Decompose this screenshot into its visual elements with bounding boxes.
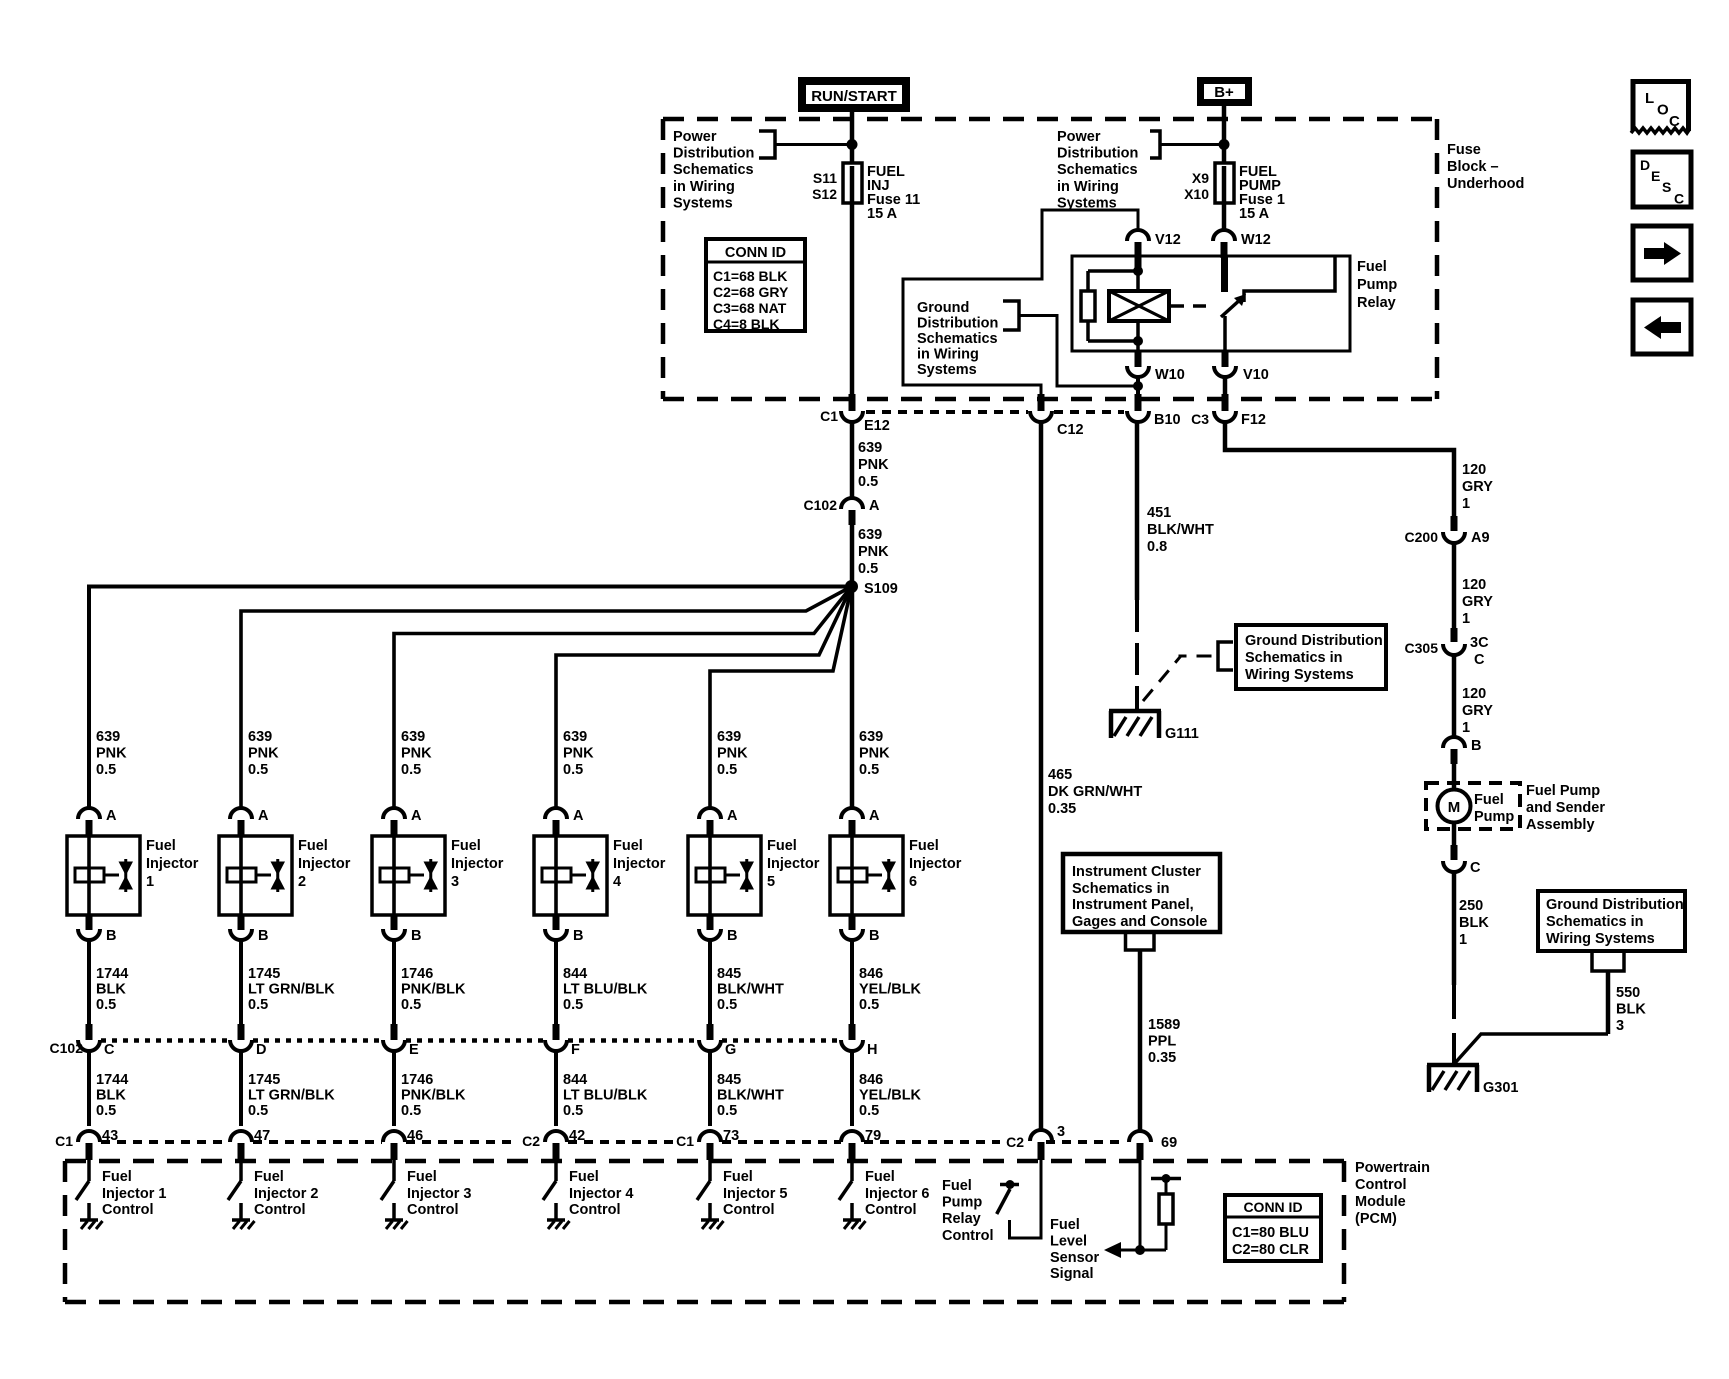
bracket ground distribution — [1003, 301, 1019, 330]
connector terminal W12 — [1213, 230, 1235, 241]
svg-text:V10: V10 — [1243, 367, 1269, 383]
ground G111 — [1109, 709, 1161, 714]
svg-text:C3=68 NAT: C3=68 NAT — [713, 300, 787, 316]
dashed connector line PCM row — [101, 1140, 229, 1144]
svg-text:Relay: Relay — [942, 1211, 981, 1227]
svg-text:PNK: PNK — [96, 746, 127, 762]
svg-text:C: C — [1669, 113, 1680, 130]
CONN ID table (fuse block) — [706, 239, 805, 331]
svg-text:LT BLU/BLK: LT BLU/BLK — [563, 982, 648, 998]
svg-text:0.5: 0.5 — [96, 1103, 116, 1119]
svg-text:G111: G111 — [1165, 726, 1199, 742]
svg-text:0.5: 0.5 — [859, 1103, 879, 1119]
connector C3 pin F12 — [1222, 394, 1229, 411]
svg-text:Fuel: Fuel — [865, 1169, 895, 1185]
PCM driver switch injector 2 — [239, 1160, 243, 1181]
relay output wire to V10 — [1223, 316, 1227, 351]
svg-text:Control: Control — [723, 1202, 775, 1218]
wire bracket to W10 wire — [1019, 316, 1134, 387]
svg-text:Power: Power — [673, 129, 717, 145]
svg-text:1745: 1745 — [248, 966, 280, 982]
svg-text:Sensor: Sensor — [1050, 1250, 1100, 1266]
svg-text:C: C — [1470, 860, 1481, 876]
connector C305 pin 3C — [1451, 628, 1458, 642]
svg-text:Control: Control — [1355, 1177, 1407, 1193]
svg-text:Fuel: Fuel — [254, 1169, 284, 1185]
connector C200 pin A9 — [1451, 516, 1458, 531]
svg-text:C102: C102 — [50, 1040, 84, 1056]
svg-text:250: 250 — [1459, 898, 1483, 914]
wire C102 to S109 — [850, 523, 855, 586]
svg-text:L: L — [1645, 90, 1654, 107]
wire E12 to C102 — [850, 422, 855, 499]
svg-text:CONN ID: CONN ID — [725, 245, 786, 261]
svg-text:1746: 1746 — [401, 1072, 433, 1088]
connector injector 6 pin B — [849, 915, 856, 930]
wire splice fan to injector 5 — [710, 587, 852, 809]
svg-text:Injector: Injector — [146, 856, 199, 872]
bracket ground distribution note — [1218, 642, 1233, 670]
svg-text:639: 639 — [858, 440, 882, 456]
connector fuel pump pin C — [1452, 823, 1457, 847]
svg-text:0.5: 0.5 — [563, 762, 583, 778]
junction coil top — [1133, 266, 1143, 276]
PCM driver switch injector 3 — [392, 1160, 396, 1181]
wire splice to injector 6 — [850, 586, 855, 808]
svg-text:A: A — [727, 808, 738, 824]
svg-text:Injector 6: Injector 6 — [865, 1186, 929, 1202]
connector injector 5 pin A — [699, 808, 721, 819]
svg-text:0.5: 0.5 — [717, 762, 737, 778]
wire fuse 1 down to W12 — [1222, 203, 1227, 230]
junction on RUN/START feed — [847, 139, 858, 150]
connector injector 1 pin B — [86, 915, 93, 930]
svg-text:YEL/BLK: YEL/BLK — [859, 1088, 922, 1104]
svg-text:PNK: PNK — [248, 746, 279, 762]
wire RUN/START down to fuse 11 — [850, 112, 855, 165]
svg-text:GRY: GRY — [1462, 479, 1493, 495]
svg-text:A: A — [869, 498, 880, 514]
svg-text:Injector 4: Injector 4 — [569, 1186, 633, 1202]
svg-text:451: 451 — [1147, 505, 1171, 521]
ground injector 4 driver — [547, 1218, 565, 1222]
wire C102 E down — [392, 1051, 396, 1126]
svg-text:0.35: 0.35 — [1048, 801, 1076, 817]
svg-text:0.5: 0.5 — [248, 762, 268, 778]
svg-text:in Wiring: in Wiring — [1057, 179, 1119, 195]
PCM driver switch injector 1 — [87, 1160, 91, 1181]
svg-text:1745: 1745 — [248, 1072, 280, 1088]
svg-text:Pump: Pump — [942, 1195, 982, 1211]
svg-text:120: 120 — [1462, 462, 1486, 478]
svg-text:0.5: 0.5 — [859, 762, 879, 778]
svg-text:Gages and Console: Gages and Console — [1072, 914, 1207, 930]
svg-text:2: 2 — [298, 874, 306, 890]
relay switch fixed contact — [1244, 257, 1335, 302]
svg-text:Wiring Systems: Wiring Systems — [1546, 931, 1655, 947]
wire B10 down (451 BLK/WHT) — [1135, 422, 1140, 600]
svg-text:C: C — [1674, 191, 1684, 207]
svg-text:CONN ID: CONN ID — [1243, 1199, 1302, 1215]
svg-text:B: B — [727, 928, 737, 944]
fuse 11 (S11/S12) FUEL INJ Fuse 11 15 A — [850, 165, 855, 203]
svg-text:5: 5 — [767, 874, 775, 890]
svg-text:1746: 1746 — [401, 966, 433, 982]
connector C102 pin H — [849, 1024, 856, 1040]
svg-text:E12: E12 — [864, 418, 890, 434]
svg-text:Ground Distribution: Ground Distribution — [1546, 897, 1684, 913]
wire 550 BLK 3 to G301 — [1606, 971, 1611, 1034]
svg-text:PNK: PNK — [401, 746, 432, 762]
PCM fuel pump relay driver switch — [1000, 1183, 1019, 1187]
svg-text:Injector 5: Injector 5 — [723, 1186, 787, 1202]
svg-text:465: 465 — [1048, 767, 1072, 783]
svg-text:846: 846 — [859, 966, 883, 982]
relay coil-switch dashed link — [1171, 304, 1214, 308]
svg-text:C1=80 BLU: C1=80 BLU — [1232, 1225, 1309, 1241]
wire dashed to G301 — [1452, 985, 1456, 1064]
svg-text:C3: C3 — [1191, 411, 1209, 427]
CONN ID table (PCM) — [1225, 1195, 1321, 1261]
svg-text:639: 639 — [859, 729, 883, 745]
svg-text:Ground Distribution: Ground Distribution — [1245, 633, 1383, 649]
connector injector 1 pin A — [78, 808, 100, 819]
connector C102 pin F — [553, 1024, 560, 1040]
svg-text:4: 4 — [613, 874, 621, 890]
fuel pump and sender assembly dashed box — [1426, 783, 1520, 829]
fuel injector 1 — [67, 836, 140, 915]
svg-text:B: B — [411, 928, 421, 944]
wire C200 to C305 — [1452, 543, 1457, 629]
svg-text:0.5: 0.5 — [248, 997, 268, 1013]
svg-text:Systems: Systems — [917, 362, 977, 378]
ground injector 5 driver — [701, 1218, 719, 1222]
connector injector 2 pin B — [238, 915, 245, 930]
svg-text:S12: S12 — [812, 186, 837, 202]
wire C102 H down — [850, 1051, 854, 1126]
svg-text:844: 844 — [563, 1072, 587, 1088]
dashed connector line C12-B10 — [1054, 410, 1124, 414]
svg-text:BLK/WHT: BLK/WHT — [717, 1088, 784, 1104]
connector C102 pin D — [238, 1024, 245, 1040]
svg-text:639: 639 — [248, 729, 272, 745]
wire injector 6 pin B down — [850, 940, 854, 1026]
connector C102 pin G — [707, 1024, 714, 1040]
svg-text:in Wiring: in Wiring — [673, 179, 735, 195]
svg-text:C1: C1 — [676, 1133, 694, 1149]
relay coil — [1109, 291, 1169, 321]
wire C102 F down — [554, 1051, 558, 1126]
svg-text:0.5: 0.5 — [717, 1103, 737, 1119]
svg-text:639: 639 — [717, 729, 741, 745]
powertrain control module dashed box — [65, 1159, 1344, 1164]
svg-text:844: 844 — [563, 966, 587, 982]
svg-text:Underhood: Underhood — [1447, 176, 1524, 192]
dashed branch to ground distribution note — [1143, 656, 1216, 701]
wire splice fan to injector 2 — [241, 587, 852, 809]
svg-text:Fuel: Fuel — [569, 1169, 599, 1185]
svg-text:PPL: PPL — [1148, 1034, 1176, 1050]
connector PCM pin 46 — [383, 1131, 405, 1142]
svg-text:B: B — [869, 928, 879, 944]
button DESC — [1633, 152, 1691, 207]
svg-text:B+: B+ — [1214, 84, 1234, 101]
svg-text:845: 845 — [717, 966, 741, 982]
wire instrument cluster to PCM pin 69 (1589 PPL) — [1138, 950, 1143, 1130]
svg-text:69: 69 — [1161, 1135, 1177, 1151]
svg-text:Wiring Systems: Wiring Systems — [1245, 667, 1354, 683]
junction coil bottom — [1133, 336, 1143, 346]
svg-text:PNK: PNK — [858, 457, 889, 473]
svg-text:0.5: 0.5 — [248, 1103, 268, 1119]
connector injector 4 pin A — [545, 808, 567, 819]
svg-text:C102: C102 — [804, 497, 838, 513]
wire C102 G down — [708, 1051, 712, 1126]
svg-text:0.5: 0.5 — [96, 997, 116, 1013]
wire pin 3 to relay control switch — [1010, 1160, 1042, 1238]
power rail label RUN/START — [798, 77, 910, 112]
relay switch common bar from W12 — [1221, 256, 1228, 292]
wire injector 4 pin B down — [554, 940, 558, 1026]
button LOC — [1633, 82, 1689, 132]
svg-text:C305: C305 — [1405, 640, 1439, 656]
svg-text:C12: C12 — [1057, 422, 1084, 438]
svg-text:Block –: Block – — [1447, 159, 1499, 175]
svg-text:C1=68 BLK: C1=68 BLK — [713, 268, 787, 284]
svg-text:639: 639 — [563, 729, 587, 745]
svg-text:Fuel: Fuel — [407, 1169, 437, 1185]
note box Ground Distribution Schematics in Wiring Systems (middle) — [1236, 625, 1386, 689]
svg-text:Injector: Injector — [909, 856, 962, 872]
bracket to RUN/START wire — [759, 131, 775, 158]
svg-text:Fuel: Fuel — [1050, 1217, 1080, 1233]
svg-text:LT BLU/BLK: LT BLU/BLK — [563, 1088, 648, 1104]
svg-text:Fuel: Fuel — [942, 1178, 972, 1194]
svg-text:Powertrain: Powertrain — [1355, 1160, 1430, 1176]
fuel pump relay box — [1072, 256, 1350, 351]
svg-text:0.5: 0.5 — [858, 474, 878, 490]
svg-text:Fuel: Fuel — [613, 838, 643, 854]
bracket instrument cluster — [1126, 931, 1155, 950]
svg-text:Systems: Systems — [673, 195, 733, 211]
svg-text:C2: C2 — [522, 1133, 540, 1149]
svg-text:S11: S11 — [813, 170, 837, 186]
svg-text:C: C — [1474, 652, 1485, 668]
wire injector 5 pin B down — [708, 940, 712, 1026]
svg-text:S: S — [1662, 179, 1671, 195]
svg-text:Injector: Injector — [451, 856, 504, 872]
svg-text:3: 3 — [1616, 1018, 1624, 1034]
svg-text:846: 846 — [859, 1072, 883, 1088]
wire loop V12 to C12 (coil feed) — [903, 210, 1138, 397]
svg-text:B: B — [106, 928, 116, 944]
svg-text:M: M — [1448, 799, 1461, 816]
svg-text:A: A — [106, 808, 117, 824]
svg-text:F: F — [571, 1042, 580, 1058]
svg-text:H: H — [867, 1042, 877, 1058]
svg-text:Schematics in: Schematics in — [1245, 650, 1343, 666]
ground injector 1 driver — [80, 1218, 98, 1222]
svg-text:Fuel: Fuel — [298, 838, 328, 854]
svg-text:Injector: Injector — [298, 856, 351, 872]
svg-text:Instrument Cluster: Instrument Cluster — [1072, 864, 1201, 880]
svg-text:V12: V12 — [1155, 232, 1181, 248]
svg-text:DK GRN/WHT: DK GRN/WHT — [1048, 784, 1142, 800]
svg-text:Injector 2: Injector 2 — [254, 1186, 318, 1202]
svg-text:Fuel: Fuel — [451, 838, 481, 854]
svg-text:Distribution: Distribution — [917, 316, 998, 332]
ground injector 2 driver — [232, 1218, 250, 1222]
wire fuse 11 to connector E12 — [850, 203, 855, 395]
svg-text:Schematics in: Schematics in — [1546, 914, 1644, 930]
svg-text:0.5: 0.5 — [859, 997, 879, 1013]
svg-text:LT GRN/BLK: LT GRN/BLK — [248, 982, 335, 998]
connector injector 6 pin A — [841, 808, 863, 819]
svg-text:Schematics in: Schematics in — [1072, 881, 1170, 897]
svg-text:Fuse: Fuse — [1447, 142, 1481, 158]
svg-text:BLK: BLK — [1616, 1002, 1646, 1018]
fuse 1 (X9/X10) FUEL PUMP Fuse 1 15 A — [1215, 163, 1234, 203]
fuel pump motor M — [1438, 790, 1471, 823]
svg-text:PNK: PNK — [858, 544, 889, 560]
junction on B+ feed — [1219, 139, 1230, 150]
dotted connector line C102 — [101, 1038, 229, 1043]
wire bracket to feed — [775, 143, 849, 146]
svg-text:Relay: Relay — [1357, 295, 1396, 311]
svg-text:YEL/BLK: YEL/BLK — [859, 982, 922, 998]
svg-text:0.5: 0.5 — [717, 997, 737, 1013]
svg-text:B: B — [1471, 738, 1481, 754]
svg-text:B: B — [258, 928, 268, 944]
wire bracket to B+ feed — [1160, 143, 1221, 146]
bracket ground distribution right — [1592, 950, 1624, 971]
svg-text:W10: W10 — [1155, 367, 1185, 383]
svg-text:Distribution: Distribution — [673, 146, 754, 162]
fuel level sensor signal arrow — [1118, 1249, 1140, 1252]
svg-text:D: D — [1640, 157, 1650, 173]
svg-text:Signal: Signal — [1050, 1266, 1094, 1282]
svg-text:O: O — [1657, 102, 1669, 119]
svg-text:LT GRN/BLK: LT GRN/BLK — [248, 1088, 335, 1104]
svg-text:0.5: 0.5 — [401, 1103, 421, 1119]
svg-text:RUN/START: RUN/START — [811, 88, 897, 105]
svg-text:Assembly: Assembly — [1526, 817, 1595, 833]
svg-text:845: 845 — [717, 1072, 741, 1088]
wire injector 3 pin B down — [392, 940, 396, 1026]
svg-text:0.35: 0.35 — [1148, 1050, 1176, 1066]
PCM driver switch injector 4 — [554, 1160, 558, 1181]
svg-text:in Wiring: in Wiring — [917, 347, 979, 363]
connector injector 4 pin B — [553, 915, 560, 930]
svg-text:C2=80 CLR: C2=80 CLR — [1232, 1242, 1309, 1258]
svg-text:W12: W12 — [1241, 232, 1271, 248]
svg-text:E: E — [409, 1042, 419, 1058]
svg-text:Control: Control — [942, 1228, 994, 1244]
svg-text:1: 1 — [1462, 496, 1470, 512]
svg-text:1: 1 — [1459, 932, 1467, 948]
wire pin C down (250 BLK) — [1452, 872, 1457, 985]
connector injector 2 pin A — [230, 808, 252, 819]
svg-text:C2=68 GRY: C2=68 GRY — [713, 284, 789, 300]
svg-text:Instrument Panel,: Instrument Panel, — [1072, 897, 1194, 913]
svg-text:G301: G301 — [1483, 1080, 1518, 1096]
svg-text:6: 6 — [909, 874, 917, 890]
svg-text:A: A — [869, 808, 880, 824]
svg-text:3C: 3C — [1470, 635, 1489, 651]
svg-text:PNK/BLK: PNK/BLK — [401, 1088, 466, 1104]
connector C2 pin 69 — [1129, 1131, 1151, 1142]
svg-text:Control: Control — [254, 1202, 306, 1218]
wire splice fan to injector 1 — [89, 587, 852, 809]
svg-text:Distribution: Distribution — [1057, 146, 1138, 162]
svg-text:BLK: BLK — [96, 1088, 126, 1104]
connector C102 pin A — [841, 498, 863, 509]
svg-text:C200: C200 — [1405, 529, 1439, 545]
svg-text:Control: Control — [569, 1202, 621, 1218]
connector fuel pump pin B — [1443, 737, 1465, 748]
note box Instrument Cluster Schematics — [1063, 854, 1220, 932]
svg-text:Injector: Injector — [767, 856, 820, 872]
bracket to B+ feed — [1150, 131, 1160, 158]
svg-text:550: 550 — [1616, 985, 1640, 1001]
svg-text:BLK/WHT: BLK/WHT — [1147, 522, 1214, 538]
fuel injector 2 — [219, 836, 292, 915]
ground injector 6 driver — [843, 1218, 861, 1222]
svg-text:15 A: 15 A — [867, 206, 898, 222]
PCM driver switch injector 5 — [708, 1160, 712, 1181]
svg-text:0.8: 0.8 — [1147, 539, 1167, 555]
wire C102 C down — [87, 1051, 91, 1126]
svg-text:A: A — [411, 808, 422, 824]
connector terminal W10 — [1135, 351, 1142, 367]
svg-text:Fuel: Fuel — [1357, 259, 1387, 275]
svg-text:Fuel: Fuel — [102, 1169, 132, 1185]
svg-text:Injector 3: Injector 3 — [407, 1186, 471, 1202]
svg-text:Schematics: Schematics — [1057, 162, 1138, 178]
note box Ground Distribution Schematics (right) — [1538, 891, 1685, 951]
svg-text:C4=8 BLK: C4=8 BLK — [713, 316, 780, 332]
relay coil feed bar from V12 — [1135, 256, 1142, 273]
wire pin B into pump assembly — [1452, 764, 1457, 790]
fuel injector 4 — [534, 836, 607, 915]
svg-text:X9: X9 — [1192, 170, 1209, 186]
svg-text:0.5: 0.5 — [96, 762, 116, 778]
svg-text:BLK: BLK — [1459, 915, 1489, 931]
svg-text:Level: Level — [1050, 1233, 1087, 1249]
svg-text:Pump: Pump — [1474, 809, 1514, 825]
svg-text:C1: C1 — [55, 1133, 73, 1149]
svg-text:120: 120 — [1462, 577, 1486, 593]
connector terminal V12 — [1127, 230, 1149, 241]
svg-text:Schematics: Schematics — [673, 162, 754, 178]
svg-text:and Sender: and Sender — [1526, 800, 1605, 816]
fuse block - underhood dashed box — [663, 117, 1437, 122]
svg-text:1744: 1744 — [96, 1072, 128, 1088]
svg-text:PNK: PNK — [859, 746, 890, 762]
svg-text:PNK: PNK — [563, 746, 594, 762]
junction fuel level signal — [1135, 1245, 1145, 1255]
svg-text:1: 1 — [1462, 720, 1470, 736]
connector C1 pin E12 — [849, 394, 856, 411]
svg-text:639: 639 — [858, 527, 882, 543]
svg-text:D: D — [256, 1042, 266, 1058]
svg-text:639: 639 — [96, 729, 120, 745]
relay switch blade — [1221, 298, 1242, 317]
svg-text:BLK: BLK — [96, 982, 126, 998]
svg-text:B: B — [573, 928, 583, 944]
svg-text:E: E — [1651, 168, 1660, 184]
svg-text:0.5: 0.5 — [563, 997, 583, 1013]
